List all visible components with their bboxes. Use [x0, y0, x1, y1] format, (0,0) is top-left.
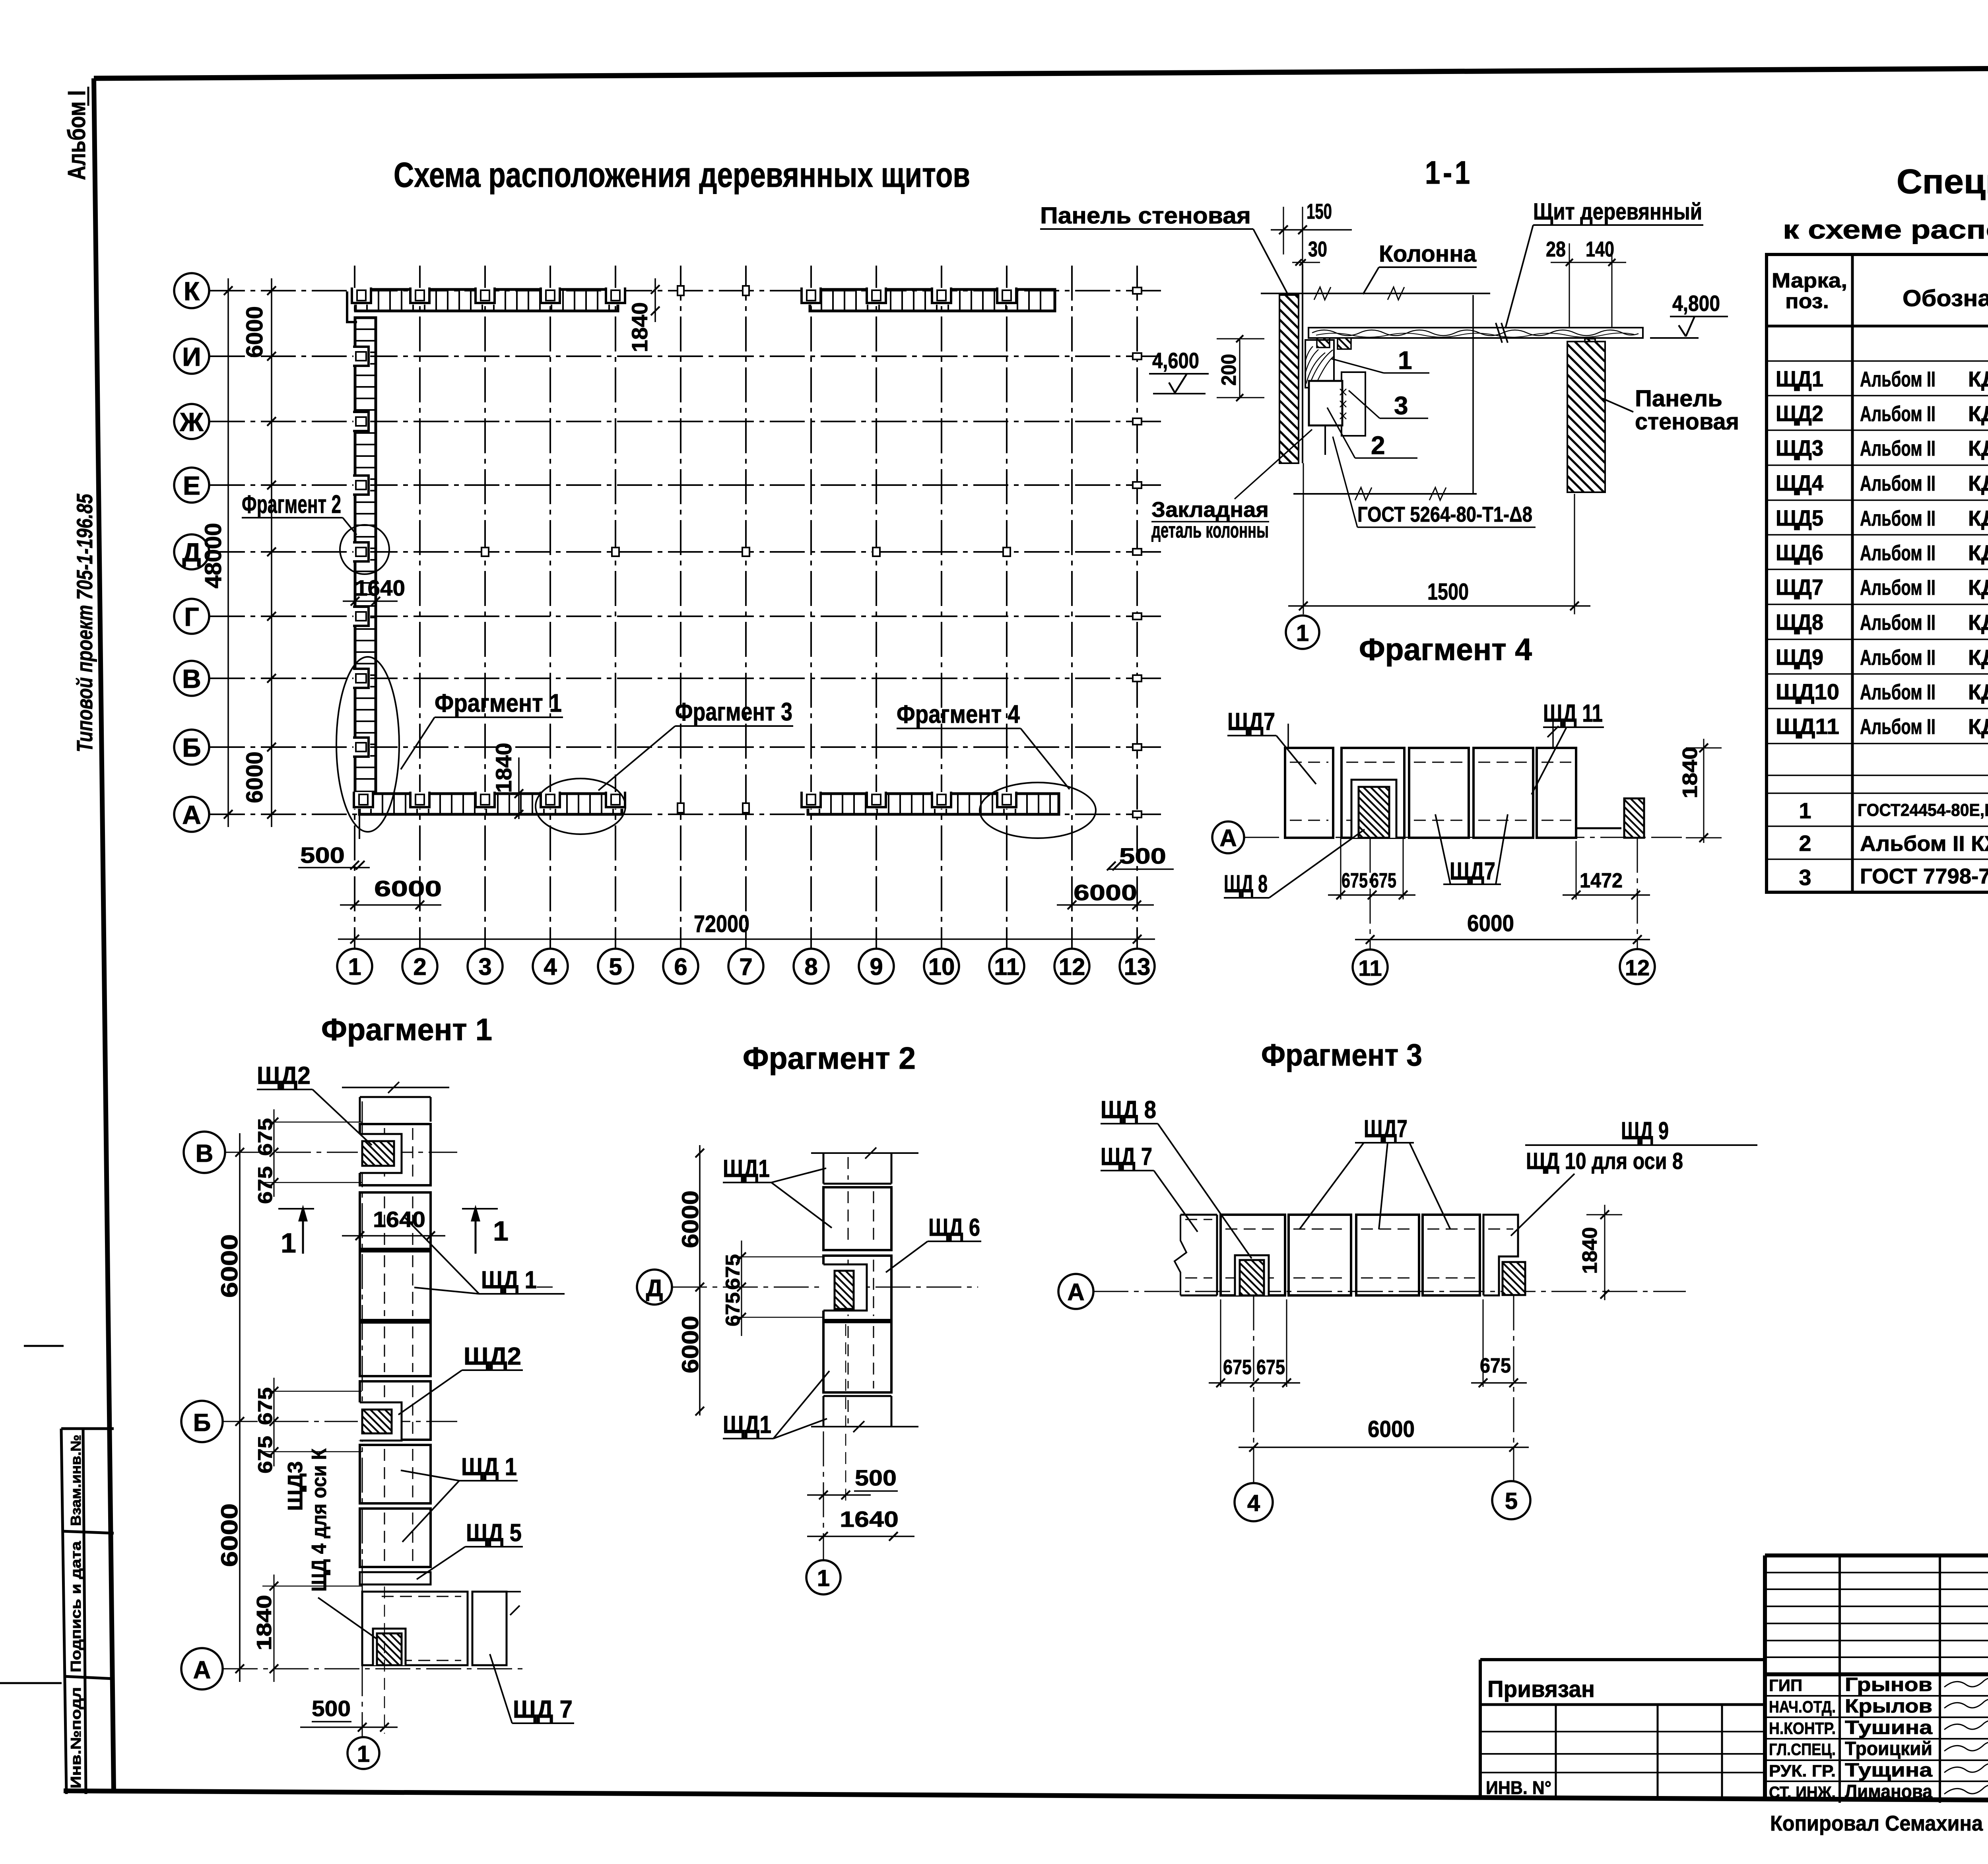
- svg-text:Тущина: Тущина: [1845, 1760, 1932, 1781]
- svg-text:КДИ-05.00: КДИ-05.00: [1968, 715, 1988, 739]
- callout ellipse Фрагмент 1 on left wall: [336, 657, 399, 832]
- specification row ЩД4: [1776, 470, 1988, 495]
- specification row 1 Брус: [1799, 798, 1988, 823]
- svg-text:ЩД 7: ЩД 7: [513, 1696, 573, 1723]
- section 1-1 embed element pos2 hatched block: [1309, 381, 1346, 455]
- fragment 2 panel ЩД1 upper: [823, 1187, 891, 1250]
- fragment 3 hatched column at axis 4: [1240, 1260, 1264, 1295]
- label Щит деревянный with leader: [1505, 199, 1703, 328]
- svg-text:1500: 1500: [1427, 579, 1469, 605]
- fragment 1 panel В with column pocket ЩД2: [358, 1124, 431, 1185]
- svg-text:Панель стеновая: Панель стеновая: [1040, 203, 1251, 229]
- label ЩД9 fragment 3 with underline: [1525, 1117, 1757, 1145]
- svg-text:1840: 1840: [1679, 747, 1702, 798]
- fragment 4 break tick left: [1287, 724, 1289, 748]
- label ЩД6 fragment 2 with leader: [886, 1214, 981, 1272]
- section 1-1 bottom column line with breaks: [1293, 487, 1477, 500]
- section 1-1 column right edge line: [1472, 295, 1474, 494]
- label ЩД7 fragment 3 center with fork leaders: [1299, 1115, 1450, 1229]
- svg-text:Альбом II КЖИ-38.00: Альбом II КЖИ-38.00: [1860, 832, 1988, 856]
- callout ellipse Фрагмент 4 on bottom wall: [980, 782, 1096, 838]
- svg-text:6000: 6000: [242, 751, 268, 803]
- dimension 675 675 fragment 4: [1328, 838, 1415, 899]
- svg-text:КДИ-02.00: КДИ-02.00: [1968, 367, 1988, 391]
- fragment 2 axis Д centerline: [537, 1287, 978, 1288]
- svg-text:7: 7: [739, 953, 752, 980]
- svg-text:8: 8: [804, 953, 817, 980]
- svg-text:КДИ - 03.00: КДИ - 03.00: [1968, 507, 1988, 530]
- svg-text:КДИ- 04.00: КДИ- 04.00: [1968, 437, 1988, 460]
- svg-text:Типовой проект 705-1-196.85: Типовой проект 705-1-196.85: [72, 493, 97, 752]
- svg-text:Копировал Семахина: Копировал Семахина: [1770, 1812, 1983, 1835]
- title block main divider line: [1765, 1672, 1988, 1676]
- fragment 3 axis А centerline: [1093, 1291, 1686, 1292]
- label ЩД1 fragment 1 lower with fork leaders: [401, 1453, 518, 1542]
- dimension 1640 fragment 1: [342, 1207, 445, 1240]
- fragment 2 axis 1 centerline vertical: [823, 1431, 824, 1560]
- dimension 675 fragment 3 right: [1471, 1299, 1527, 1387]
- svg-text:675: 675: [1256, 1356, 1285, 1379]
- svg-text:Закладная: Закладная: [1151, 498, 1269, 522]
- svg-text:ИНВ. N°: ИНВ. N°: [1486, 1777, 1551, 1798]
- svg-text:12: 12: [1625, 955, 1650, 980]
- fragment 1 corner panel big: [362, 1592, 468, 1665]
- dimension 6000 axes 12-13 bottom: [1057, 880, 1154, 909]
- svg-text:675: 675: [722, 1292, 744, 1326]
- svg-text:1640: 1640: [840, 1507, 899, 1532]
- column marks row К cols 6,7: [678, 286, 749, 295]
- fragment 1 corner panel small ЩД7: [472, 1592, 521, 1665]
- label ЩД2 fragment 1 top with leader: [257, 1062, 372, 1145]
- svg-text:2: 2: [413, 953, 426, 980]
- svg-text:3: 3: [1394, 391, 1408, 420]
- plan horizontal centerlines axes К-А: [210, 291, 1165, 814]
- svg-text:РУК. ГР.: РУК. ГР.: [1769, 1761, 1836, 1780]
- column marks right edge axis 13: [1133, 287, 1142, 817]
- signature row Н.КОНТР. Тушина: [1769, 1717, 1988, 1738]
- svg-text:ЩД7: ЩД7: [1364, 1115, 1408, 1143]
- svg-text:Альбом II: Альбом II: [1860, 437, 1936, 460]
- label Фрагмент 3 with leader: [598, 697, 793, 790]
- svg-text:СТ. ИНЖ.: СТ. ИНЖ.: [1769, 1783, 1836, 1802]
- fragment 1 panel ЩД1 seventh: [360, 1509, 431, 1567]
- svg-text:1840: 1840: [491, 743, 516, 793]
- section 1-1 joint wood brus detail pos1: [1305, 340, 1334, 388]
- svg-text:ЩД6: ЩД6: [1776, 540, 1823, 565]
- svg-text:48000: 48000: [200, 523, 226, 588]
- svg-text:ЩД8: ЩД8: [1776, 610, 1823, 635]
- svg-text:В: В: [196, 1140, 214, 1167]
- fragment 4 panel ЩД7 first: [1285, 748, 1333, 838]
- svg-text:675: 675: [722, 1254, 744, 1290]
- svg-text:А: А: [1067, 1279, 1084, 1305]
- specification row 2 Элемент крепления: [1799, 831, 1988, 857]
- svg-text:Фрагмент 2: Фрагмент 2: [242, 490, 341, 518]
- svg-text:ЩД 5: ЩД 5: [466, 1519, 522, 1547]
- svg-text:Подпись и дата: Подпись и дата: [68, 1541, 84, 1672]
- svg-text:Фрагмент 1: Фрагмент 1: [435, 689, 562, 717]
- svg-text:Альбом II: Альбом II: [1860, 402, 1936, 426]
- svg-text:КДИ-03.00-01: КДИ-03.00-01: [1968, 611, 1988, 635]
- label ГОСТ 5264-80-Т1 weld with leader: [1333, 437, 1536, 527]
- svg-text:А: А: [1219, 825, 1237, 851]
- svg-text:2: 2: [1799, 831, 1811, 856]
- svg-text:4,600: 4,600: [1152, 348, 1199, 373]
- svg-text:1840: 1840: [627, 302, 652, 352]
- label ЩД1 fragment 1 upper with fork leaders: [405, 1217, 565, 1294]
- svg-text:ЩД9: ЩД9: [1776, 645, 1823, 670]
- svg-text:6000: 6000: [678, 1190, 703, 1248]
- svg-text:6000: 6000: [374, 876, 442, 901]
- callout ellipse Фрагмент 3 on bottom wall: [536, 779, 625, 834]
- fragment 1 axis circle Б: [181, 1401, 223, 1442]
- specification row 3 Болт: [1799, 864, 1988, 891]
- fragment 1 panel ЩД1 second: [360, 1192, 431, 1249]
- svg-text:6000: 6000: [217, 1234, 243, 1298]
- svg-text:Н.КОНТР.: Н.КОНТР.: [1769, 1719, 1836, 1738]
- svg-text:6000: 6000: [678, 1316, 703, 1373]
- label ЩД1 fragment 2 bottom with fork leaders: [723, 1371, 829, 1439]
- svg-text:Альбом II: Альбом II: [1860, 507, 1936, 530]
- small hatched fixing blocks on deck near column joint: [1317, 338, 1595, 351]
- svg-text:1840: 1840: [253, 1595, 276, 1650]
- fragment 1 narrow panel ЩД5: [360, 1572, 431, 1584]
- svg-text:ЩД 11: ЩД 11: [1543, 700, 1603, 727]
- svg-text:ГЛ.СПЕЦ.: ГЛ.СПЕЦ.: [1769, 1740, 1836, 1759]
- svg-text:Б: Б: [193, 1409, 211, 1437]
- svg-text:Инв.№подл: Инв.№подл: [68, 1687, 84, 1788]
- svg-text:28: 28: [1546, 237, 1566, 261]
- svg-text:ГИП: ГИП: [1769, 1676, 1802, 1695]
- svg-text:675: 675: [1342, 869, 1368, 892]
- label ЩД7 fragment 4 top with leader: [1227, 708, 1316, 784]
- specification row ЩД7: [1776, 575, 1988, 600]
- svg-text:ЩД 1: ЩД 1: [481, 1266, 537, 1294]
- svg-text:4: 4: [1247, 1490, 1260, 1516]
- svg-text:675: 675: [254, 1436, 276, 1474]
- fragment 2 panel Д with column pocket ЩД6: [821, 1256, 891, 1320]
- svg-text:11: 11: [1358, 955, 1382, 981]
- svg-text:Обозначение: Обозначение: [1903, 285, 1988, 311]
- elevation mark 4.600 on plan right: [1149, 348, 1209, 394]
- svg-text:1640: 1640: [373, 1207, 425, 1232]
- signature row ГИП Грынов: [1769, 1674, 1988, 1695]
- fragment 2 hatched column at Д: [835, 1271, 854, 1309]
- svg-text:675: 675: [254, 1166, 276, 1204]
- svg-text:500: 500: [855, 1465, 897, 1490]
- svg-text:КДИ-07.00-01: КДИ-07.00-01: [1968, 680, 1988, 704]
- vertical label Альбом I top-left: [63, 87, 91, 180]
- svg-text:ЩД 10 для оси 8: ЩД 10 для оси 8: [1526, 1148, 1683, 1174]
- label Закладная деталь колонны: [1151, 429, 1312, 542]
- svg-text:1: 1: [357, 1741, 370, 1767]
- svg-text:6000: 6000: [217, 1503, 243, 1567]
- label ЩД5 fragment 1 with leader: [417, 1519, 523, 1579]
- svg-text:ЩД1: ЩД1: [723, 1411, 771, 1439]
- dimension chain 6000 left side: [242, 278, 276, 827]
- section 1-1 wood deck щит with grain: [1309, 323, 1643, 343]
- signature row СТ. ИНЖ. Лиманова: [1769, 1781, 1988, 1802]
- fragment 3 axis circle 5: [1492, 1295, 1530, 1519]
- svg-text:Взам.инв.№: Взам.инв.№: [68, 1435, 84, 1526]
- svg-text:ЩД10: ЩД10: [1776, 679, 1839, 704]
- top wall panel strip columns 1-5: [347, 287, 625, 322]
- svg-text:Альбом II: Альбом II: [1860, 367, 1936, 391]
- dimension 30: [1292, 237, 1327, 266]
- specification row ЩД11: [1776, 714, 1988, 739]
- svg-text:ЩД 6: ЩД 6: [928, 1214, 980, 1241]
- dimension 72000 overall bottom: [338, 911, 1155, 944]
- svg-text:1: 1: [1296, 620, 1309, 646]
- fragment 1 axis Б centerline: [223, 1421, 457, 1422]
- specification row ЩД3: [1776, 435, 1988, 460]
- dimension 1840 top near axis 5: [627, 278, 660, 352]
- dimension 6000 fragment 4: [1355, 911, 1650, 944]
- svg-text:ЩД1: ЩД1: [723, 1155, 770, 1182]
- svg-text:1840: 1840: [1578, 1227, 1602, 1274]
- svg-text:1: 1: [493, 1215, 509, 1247]
- label Фрагмент 2 with leader: [242, 490, 357, 535]
- fragment 1 hatched column at В: [362, 1141, 394, 1166]
- dimension 1472 fragment 4: [1563, 841, 1650, 899]
- svg-text:Е: Е: [183, 471, 200, 500]
- svg-text:КДИ-03.00: КДИ-03.00: [1968, 402, 1988, 426]
- svg-text:675: 675: [1480, 1354, 1511, 1377]
- svg-text:Г: Г: [184, 602, 199, 631]
- fragment 2 axis circle 1 bottom: [806, 1560, 841, 1594]
- svg-text:1472: 1472: [1580, 869, 1623, 892]
- svg-text:1: 1: [348, 953, 361, 980]
- fragment 3 panel ЩД7 third: [1356, 1215, 1419, 1295]
- svg-text:30: 30: [1308, 237, 1327, 261]
- svg-text:1: 1: [281, 1227, 296, 1258]
- svg-text:Альбом II: Альбом II: [1860, 611, 1936, 635]
- svg-text:ЩД 7: ЩД 7: [1101, 1143, 1152, 1171]
- fragment 1 axis А centerline: [223, 1668, 525, 1670]
- svg-text:3: 3: [478, 953, 491, 980]
- dimension 1640 at left wall: [343, 575, 405, 606]
- specification row ЩД5: [1776, 505, 1988, 530]
- fragment 4 break tick above ЩД11: [1547, 721, 1559, 748]
- specification table outer frame and columns: [1767, 254, 1988, 892]
- svg-text:Ж: Ж: [179, 407, 204, 437]
- svg-text:Альбом II: Альбом II: [1860, 680, 1936, 704]
- specification table headers: [1772, 269, 1988, 313]
- svg-text:Фрагмент 2: Фрагмент 2: [743, 1041, 916, 1076]
- svg-text:Привязан: Привязан: [1487, 1676, 1595, 1702]
- dimension 28 140 right: [1546, 237, 1626, 328]
- svg-text:ЩД3: ЩД3: [1776, 435, 1823, 460]
- fragment 4 panel ЩД7 third: [1409, 748, 1469, 838]
- svg-text:6000: 6000: [1074, 880, 1137, 905]
- label Панель стеновая top-left with leader: [1040, 203, 1288, 295]
- fragment 1 axis circle 1 bottom: [348, 1737, 379, 1769]
- svg-text:9: 9: [870, 953, 883, 980]
- svg-text:4: 4: [544, 953, 557, 980]
- fragment 4 panel with column pocket: [1342, 748, 1404, 838]
- dimension 500 fragment 2: [807, 1324, 898, 1501]
- signature row ГЛ.СПЕЦ. Троицкий: [1769, 1738, 1988, 1759]
- fragment 2 top partial panel with break: [811, 1148, 918, 1184]
- svg-text:А: А: [193, 1656, 211, 1684]
- dimension 500 fragment 1 bottom: [300, 1586, 398, 1734]
- svg-text:500: 500: [300, 843, 345, 868]
- leader with number 2: [1327, 408, 1417, 460]
- bottom wall panel strip columns 8-12: [802, 792, 1059, 814]
- svg-text:Грынов: Грынов: [1845, 1674, 1932, 1695]
- svg-text:В: В: [182, 664, 201, 693]
- привязан box grid: [1480, 1705, 1765, 1798]
- leader with number 1: [1331, 346, 1429, 375]
- svg-text:ЩД11: ЩД11: [1776, 714, 1839, 739]
- svg-text:6000: 6000: [1467, 911, 1514, 936]
- svg-text:Тушина: Тушина: [1845, 1717, 1932, 1738]
- svg-text:К: К: [184, 276, 200, 306]
- svg-text:ЩД 8: ЩД 8: [1101, 1096, 1156, 1124]
- dimension 6000 axes 1-2 bottom: [340, 876, 442, 909]
- dimension 1500 bottom of section: [1288, 463, 1590, 614]
- column marks middle row Д: [481, 548, 1010, 556]
- svg-text:И: И: [182, 342, 201, 371]
- fragment 1 hatched column at Б: [362, 1410, 392, 1433]
- signature row НАЧ.ОТД. Крылов: [1769, 1696, 1988, 1717]
- svg-text:Фрагмент 4: Фрагмент 4: [897, 700, 1020, 728]
- svg-text:6: 6: [674, 953, 687, 980]
- specification table row lines: [1767, 361, 1988, 859]
- svg-text:10: 10: [928, 953, 955, 980]
- label ЩД7 fragment 1 with leader: [490, 1654, 574, 1723]
- section 1-1 fixing element pos3 rect: [1342, 372, 1365, 436]
- section mark 1 arrow left: [278, 1205, 314, 1258]
- fragment 1 panel ЩД1 sixth: [360, 1445, 431, 1503]
- svg-text:к схеме расположения деревя: к схеме расположения деревянных щитов: [1783, 215, 1988, 244]
- top wall panel strip columns 8-12: [802, 287, 1055, 311]
- axis circle 1 below section: [1286, 616, 1319, 649]
- svg-text:Альбом II: Альбом II: [1860, 576, 1936, 600]
- specification row ЩД1: [1776, 366, 1988, 391]
- fragment 3 panel with column pocket axis 4: [1221, 1215, 1285, 1295]
- svg-text:1: 1: [817, 1565, 830, 1591]
- fold mark lines at left edge: [0, 1346, 64, 1683]
- column marks row А cols 6,7: [678, 803, 749, 813]
- svg-text:Д: Д: [646, 1275, 663, 1301]
- fragment 1 axis В centerline: [225, 1152, 457, 1153]
- section 1-1 top column line with breaks: [1261, 287, 1490, 300]
- fragment 4 axis А centerline: [1244, 837, 1682, 838]
- fragment 3 axis circle 4: [1235, 1295, 1273, 1521]
- svg-text:КДИ-04.00-01: КДИ-04.00-01: [1968, 472, 1988, 495]
- svg-text:1-1: 1-1: [1425, 155, 1473, 191]
- svg-text:Д: Д: [182, 538, 201, 567]
- svg-text:ЩД5: ЩД5: [1776, 505, 1823, 530]
- label ЩД7 fragment 4 bottom with fork leaders: [1435, 814, 1508, 885]
- svg-text:ЩД2: ЩД2: [1776, 401, 1823, 426]
- svg-text:ЩД4: ЩД4: [1776, 470, 1823, 495]
- bottom wall panel strip columns 1-5: [354, 792, 625, 839]
- svg-text:Фрагмент 4: Фрагмент 4: [1359, 632, 1532, 667]
- svg-text:500: 500: [1119, 843, 1166, 868]
- fragment 2 dimension chain left: [678, 1145, 704, 1415]
- fragment 1 axis circle В: [184, 1132, 225, 1173]
- svg-text:72000: 72000: [694, 911, 749, 937]
- fragment 3 panel ЩД7 second: [1289, 1215, 1351, 1295]
- svg-text:12: 12: [1059, 953, 1085, 980]
- svg-text:ГОСТ24454-80Е,ГОСТ 8486-66**: ГОСТ24454-80Е,ГОСТ 8486-66**: [1858, 800, 1988, 820]
- svg-text:ЩД2: ЩД2: [464, 1343, 521, 1370]
- svg-text:ЩД7: ЩД7: [1450, 858, 1495, 885]
- svg-text:Фрагмент 3: Фрагмент 3: [675, 697, 792, 726]
- dimension 1640 fragment 2: [807, 1507, 914, 1541]
- svg-text:4,800: 4,800: [1672, 291, 1720, 316]
- label ЩД11 fragment 4 with leader: [1532, 700, 1604, 794]
- svg-text:6000: 6000: [242, 306, 268, 358]
- specification row ЩД8: [1776, 610, 1988, 635]
- svg-text:2: 2: [1371, 431, 1385, 460]
- left wall panel strip rows К-А: [353, 318, 376, 792]
- fragment 1 panel Б with column pocket ЩД2: [358, 1381, 431, 1441]
- label Фрагмент 4 with leader: [897, 700, 1070, 789]
- svg-text:ЩД 8: ЩД 8: [1224, 870, 1268, 898]
- fragment 1 top partial panel with break: [342, 1082, 449, 1122]
- svg-text:200: 200: [1217, 354, 1241, 386]
- svg-text:Схема расположения деревянны: Схема расположения деревянных щитов: [394, 155, 970, 194]
- svg-text:Марка,: Марка,: [1772, 269, 1847, 292]
- label Колонна with leader: [1363, 241, 1477, 294]
- svg-text:675: 675: [1223, 1356, 1252, 1379]
- svg-text:Фрагмент 1: Фрагмент 1: [321, 1012, 492, 1047]
- label Панель стеновая right with leader: [1602, 386, 1739, 435]
- svg-text:500: 500: [312, 1696, 351, 1721]
- dimension 675 675 at axis В fragment 1: [254, 1109, 362, 1204]
- svg-text:1: 1: [1799, 798, 1811, 823]
- specification row ЩД6: [1776, 540, 1988, 565]
- svg-text:Троицкий: Троицкий: [1845, 1738, 1932, 1759]
- dimension 48000 overall left side: [200, 278, 233, 827]
- svg-text:Альбом I: Альбом I: [63, 90, 91, 180]
- section mark 1 arrow right: [462, 1205, 509, 1254]
- fragment 4 axis circle 11: [1353, 838, 1388, 984]
- leader with number 3: [1349, 390, 1428, 420]
- dimension 6000 fragment 3: [1239, 1416, 1529, 1452]
- dimension 675 675 at axis Б fragment 1: [254, 1378, 362, 1474]
- section 1-1 left wall panel hatched: [1279, 264, 1303, 463]
- svg-text:ЩД1: ЩД1: [1776, 366, 1823, 391]
- svg-text:13: 13: [1124, 953, 1151, 980]
- specification row ЩД2: [1776, 401, 1988, 426]
- svg-text:150: 150: [1307, 200, 1332, 223]
- fragment 1 panel ЩД1 third: [360, 1251, 431, 1320]
- svg-text:5: 5: [609, 953, 622, 980]
- svg-text:КДИ-02 00-01: КДИ-02 00-01: [1968, 576, 1988, 600]
- dimension 500 bottom left of axis 1: [298, 843, 370, 870]
- fragment 3 right panel ЩД9 with notch: [1483, 1215, 1518, 1295]
- fragment 4 hatched column at axis 11: [1359, 787, 1389, 838]
- label ЩД8 fragment 4 with leader: [1224, 829, 1365, 898]
- svg-text:1: 1: [1398, 346, 1412, 375]
- specification row ЩД10: [1776, 679, 1988, 704]
- fragment 2 bottom partial panel with break: [811, 1396, 918, 1432]
- svg-text:Панель: Панель: [1635, 386, 1722, 412]
- svg-text:поз.: поз.: [1785, 290, 1829, 313]
- fragment 3 left partial panel with break: [1175, 1215, 1217, 1295]
- section 1-1 right wall panel hatched: [1567, 342, 1605, 492]
- dimension 500 bottom right near axis 13: [1107, 843, 1174, 870]
- fragment 4 panel ЩД11 right: [1537, 748, 1621, 838]
- svg-text:1640: 1640: [355, 575, 405, 600]
- dimension 675 675 fragment 2: [722, 1241, 822, 1336]
- svg-text:ГОСТ 5264-80-Т1-Δ8: ГОСТ 5264-80-Т1-Δ8: [1357, 503, 1532, 526]
- svg-text:ЩД 9: ЩД 9: [1621, 1117, 1669, 1145]
